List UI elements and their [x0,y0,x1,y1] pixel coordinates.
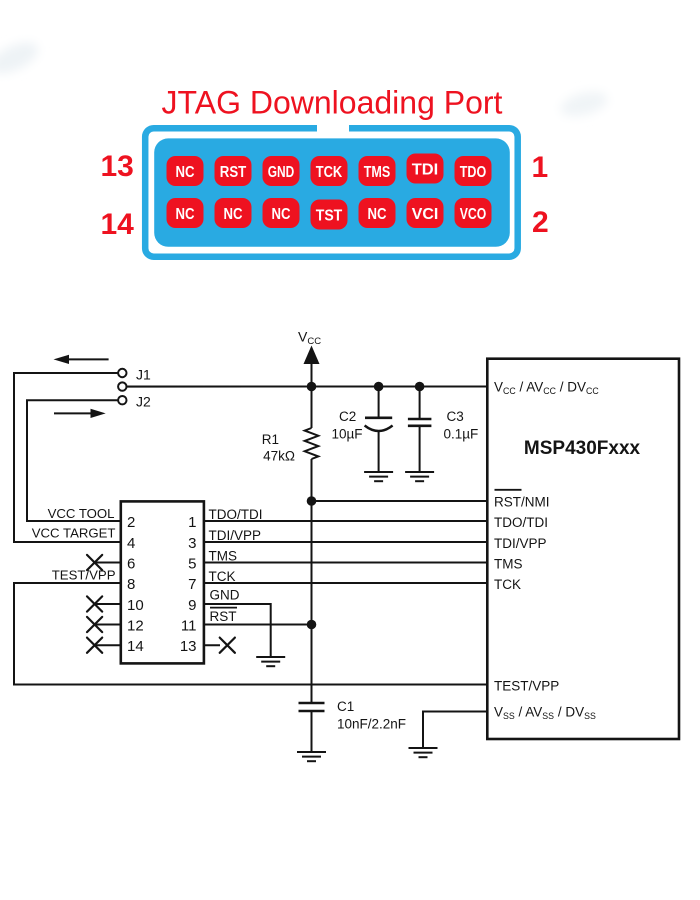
svg-text:1: 1 [188,514,196,531]
no-connect X at pin 13 [220,638,235,653]
wire RST/NMI rail [312,500,488,502]
svg-text:NC: NC [368,206,387,223]
jumper pin J2 circle [118,396,126,404]
svg-text:4: 4 [127,535,135,552]
connector body [154,138,510,246]
svg-text:VSS / AVSS / DVSS: VSS / AVSS / DVSS [494,705,596,722]
svg-text:NC: NC [176,164,195,181]
svg-text:RST/NMI: RST/NMI [494,495,550,510]
svg-text:VCC: VCC [298,329,321,348]
svg-text:J2: J2 [136,394,151,410]
svg-text:10nF/2.2nF: 10nF/2.2nF [337,717,406,732]
capacitor C3 (0.1uF) [408,387,432,473]
svg-text:47kΩ: 47kΩ [263,449,295,464]
ground at header pin 9 [256,657,285,666]
svg-text:TDO/TDI: TDO/TDI [209,507,263,522]
junction node RST row [307,620,317,630]
connector pin NC (top row, pin 13) [167,156,204,186]
svg-text:J1: J1 [136,367,151,383]
connector pin TMS (top row, pin 5) [359,156,396,186]
wire J1 to pin 4 (VCC TARGET) [14,373,121,542]
jumper pin J1 circle [118,369,126,377]
wire jumper middle to Vcc rail [126,386,311,388]
wire pin 1 TDO/TDI to U1 [204,520,487,522]
svg-text:14: 14 [101,208,135,241]
Vcc supply arrow [304,346,320,429]
svg-text:TEST/VPP: TEST/VPP [52,568,116,583]
wire J2 to pin 2 (VCC TOOL) [27,400,121,521]
svg-text:TCK: TCK [209,569,236,584]
no-connect X at pin 12 [87,617,102,632]
svg-text:VCO: VCO [460,206,487,223]
JTAG 14-pin header box [121,501,204,663]
connector pin VCO (bottom row, pin 2) [455,198,492,228]
connector pin NC (bottom row, pin 6) [359,198,396,228]
connector pin NC (bottom row, pin 10) [263,198,300,228]
svg-text:GND: GND [268,164,295,181]
wire pin 11 RST to node [204,624,312,626]
svg-text:TMS: TMS [494,557,523,572]
svg-text:10: 10 [127,597,144,614]
svg-text:12: 12 [127,618,144,635]
svg-text:NC: NC [176,206,195,223]
svg-text:TST: TST [316,207,343,224]
connector pin TST (bottom row, pin 8) [311,200,348,230]
svg-text:TDI/VPP: TDI/VPP [494,536,547,551]
svg-text:TEST/VPP: TEST/VPP [494,679,559,694]
svg-text:8: 8 [127,576,135,593]
wire pin 9 GND to ground [204,604,271,657]
resistor R1 [305,428,319,459]
svg-text:5: 5 [188,556,196,573]
wire Vcc rail [126,386,487,388]
wire X to pin 10 [96,603,121,605]
connector key notch [317,121,349,134]
ground under C3 [405,472,434,481]
IC U1 MSP430Fxxx [487,359,679,739]
svg-text:TMS: TMS [364,164,391,181]
wire TEST/VPP from pin 8 down to bottom rail [14,583,487,685]
faint scan smudge top-right [558,87,610,121]
wire X to pin 12 [96,624,121,626]
capacitor C1 (10nF/2.2nF) [299,703,325,752]
connector pin NC (bottom row, pin 12) [215,198,252,228]
pin label RST/NMI with overline [494,490,550,510]
svg-text:6: 6 [127,556,135,573]
connector pin TDI (top row, pin 3) [407,154,444,184]
wire main vertical to RST row [311,501,313,625]
ground at Vss [409,748,438,757]
svg-text:TDO: TDO [460,164,487,181]
svg-text:VCC TARGET: VCC TARGET [32,526,116,541]
svg-text:R1: R1 [262,432,279,447]
junction node C2 top [374,382,384,392]
svg-text:VCC TOOL: VCC TOOL [48,506,115,521]
no-connect X at pin 6 [87,555,102,570]
svg-text:3: 3 [188,535,196,552]
jumper middle pin circle [118,382,126,390]
svg-text:C1: C1 [337,699,354,714]
net label RST with overline [210,608,238,624]
svg-text:13: 13 [101,150,134,183]
svg-text:RST: RST [220,164,247,181]
no-connect X at pin 14 [87,638,102,653]
svg-text:RST: RST [210,609,237,624]
svg-text:MSP430Fxxx: MSP430Fxxx [524,438,641,459]
svg-text:GND: GND [210,588,240,603]
wire pin 3 TDI/VPP to U1 [204,541,487,543]
svg-text:TDI/VPP: TDI/VPP [209,528,262,543]
svg-text:C2: C2 [339,409,356,424]
svg-text:JTAG Downloading Port: JTAG Downloading Port [162,85,503,121]
svg-text:VCI: VCI [412,206,439,223]
svg-text:TMS: TMS [209,549,238,564]
svg-text:7: 7 [188,576,196,593]
connector pin VCI (bottom row, pin 4) [407,198,444,228]
ground under C1 [297,752,326,761]
junction node on Vcc rail at R1 [307,382,317,392]
connector pin TCK (top row, pin 7) [311,156,348,186]
svg-text:9: 9 [188,597,196,614]
svg-text:2: 2 [532,206,549,239]
wire Vss to ground [423,712,487,749]
arrow pointing right (VCC TARGET direction) [54,409,106,418]
wire pin 7 TCK to U1 [204,582,487,584]
svg-text:TDO/TDI: TDO/TDI [494,515,548,530]
connector pin TDO (top row, pin 1) [455,156,492,186]
wire RST node to C1 [311,625,313,704]
capacitor C2 (10uF polarized) [365,387,393,473]
svg-text:NC: NC [272,206,291,223]
ground under C2 [364,472,393,481]
svg-text:C3: C3 [447,409,464,424]
connector pin GND (top row, pin 9) [263,156,300,186]
connector pin NC (bottom row, pin 14) [167,198,204,228]
svg-text:1: 1 [532,151,549,184]
svg-text:TCK: TCK [494,577,521,592]
svg-text:TCK: TCK [316,164,343,181]
svg-text:2: 2 [127,514,135,531]
junction node RST/NMI rail [307,496,317,506]
svg-text:0.1µF: 0.1µF [444,427,479,442]
svg-text:VCC / AVCC / DVCC: VCC / AVCC / DVCC [494,380,599,397]
svg-text:NC: NC [224,206,243,223]
wire R1 to node [311,459,313,501]
svg-text:TDI: TDI [412,161,439,178]
connector J-PORT outer shell [145,128,518,257]
wire X to pin 6 [96,562,121,564]
svg-text:10µF: 10µF [332,427,363,442]
junction node C3 top [415,382,425,392]
no-connect X at pin 10 [87,596,102,611]
connector pin RST (top row, pin 11) [215,156,252,186]
svg-text:11: 11 [181,618,197,635]
arrow pointing left (VCC TOOL direction) [54,355,109,364]
wire pin 13 stub [204,644,220,646]
svg-text:14: 14 [127,638,144,655]
svg-text:13: 13 [180,638,197,655]
faint scan smudge top-left [0,36,43,80]
wire pin 5 TMS to U1 [204,562,487,564]
wire X to pin 14 [96,644,121,646]
